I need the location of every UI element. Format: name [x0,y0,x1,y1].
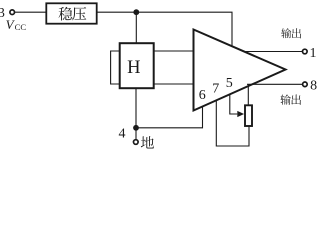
wire ground node to pin 6 of op-amp [136,107,203,128]
svg-text:4: 4 [119,127,126,142]
oscillator block H [120,43,154,88]
label 输出 (output) bottom [280,94,301,104]
wire regulator to Vcc pin of op-amp [98,12,233,46]
wire output node to potentiometer top [247,84,249,104]
wire pin 7 to potentiometer bottom [216,100,249,146]
wire op-amp output to terminal 8 [247,83,302,85]
wire junction to H block top [135,12,137,43]
label 稳压 [59,7,87,21]
wire Vcc terminal to regulator [15,11,46,13]
svg-text:CC: CC [15,22,27,32]
svg-text:6: 6 [199,88,206,103]
svg-text:3: 3 [0,6,5,21]
junction dot ground node [133,125,139,131]
node pin-3 terminal [10,10,15,15]
svg-text:7: 7 [212,82,219,97]
potentiometer wiper arrow [237,111,244,117]
regulator box U1 (stabilizer) [46,3,96,23]
op-amp U2 power amplifier triangle [194,30,286,111]
label 地 (ground) [141,136,154,148]
wire H to op-amp input 2 [154,83,194,85]
svg-text:8: 8 [310,78,317,93]
node pin-4 ground terminal [134,140,139,145]
wire H to op-amp input 1 [154,50,194,52]
junction dot top rail [133,9,139,15]
node pin-1 output terminal [303,49,308,54]
wire op-amp output to terminal 1 [243,51,303,53]
label 输出 (output) top [281,28,301,38]
svg-text:1: 1 [310,46,317,61]
potentiometer RP body [245,105,252,126]
wire pin 5 to potentiometer wiper [230,94,238,114]
node pin-8 output terminal [303,82,308,87]
wire H block bottom to ground rail [135,88,137,140]
feedback bracket left of H [111,51,119,84]
svg-text:H: H [127,58,140,78]
svg-text:5: 5 [226,76,233,91]
